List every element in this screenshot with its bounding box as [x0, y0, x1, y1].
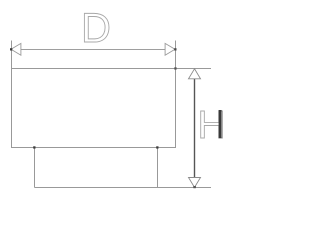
- junction dot at left arrow tip: [10, 48, 12, 50]
- wire: top extension line to H dimension: [176, 68, 212, 70]
- arrowhead right (dimension D): [165, 43, 175, 55]
- svg-text:D: D: [81, 4, 111, 51]
- junction dot at bottom arrow tip: [193, 186, 196, 188]
- body: big rectangle: [12, 69, 176, 148]
- wire: dimension H shaft: [194, 79, 196, 178]
- junction dot at top-right cross: [174, 67, 176, 69]
- junction dot small rect top-left: [33, 146, 35, 148]
- arrowhead left (dimension D): [11, 43, 21, 55]
- wire: dimension D shaft: [21, 49, 165, 51]
- label H dark right stem: [219, 110, 222, 138]
- junction dot at right arrow tip: [174, 48, 176, 50]
- arrowhead top (dimension H): [189, 69, 201, 79]
- wire: right extension line: [175, 41, 177, 69]
- wire: left extension line: [11, 41, 13, 69]
- body: small rectangle left edge: [34, 148, 36, 188]
- arrowhead bottom (dimension H): [189, 178, 201, 188]
- wire: bottom edge + extension line: [35, 187, 212, 189]
- junction dot small rect top-right: [156, 146, 158, 148]
- body: small rectangle right edge: [157, 148, 159, 188]
